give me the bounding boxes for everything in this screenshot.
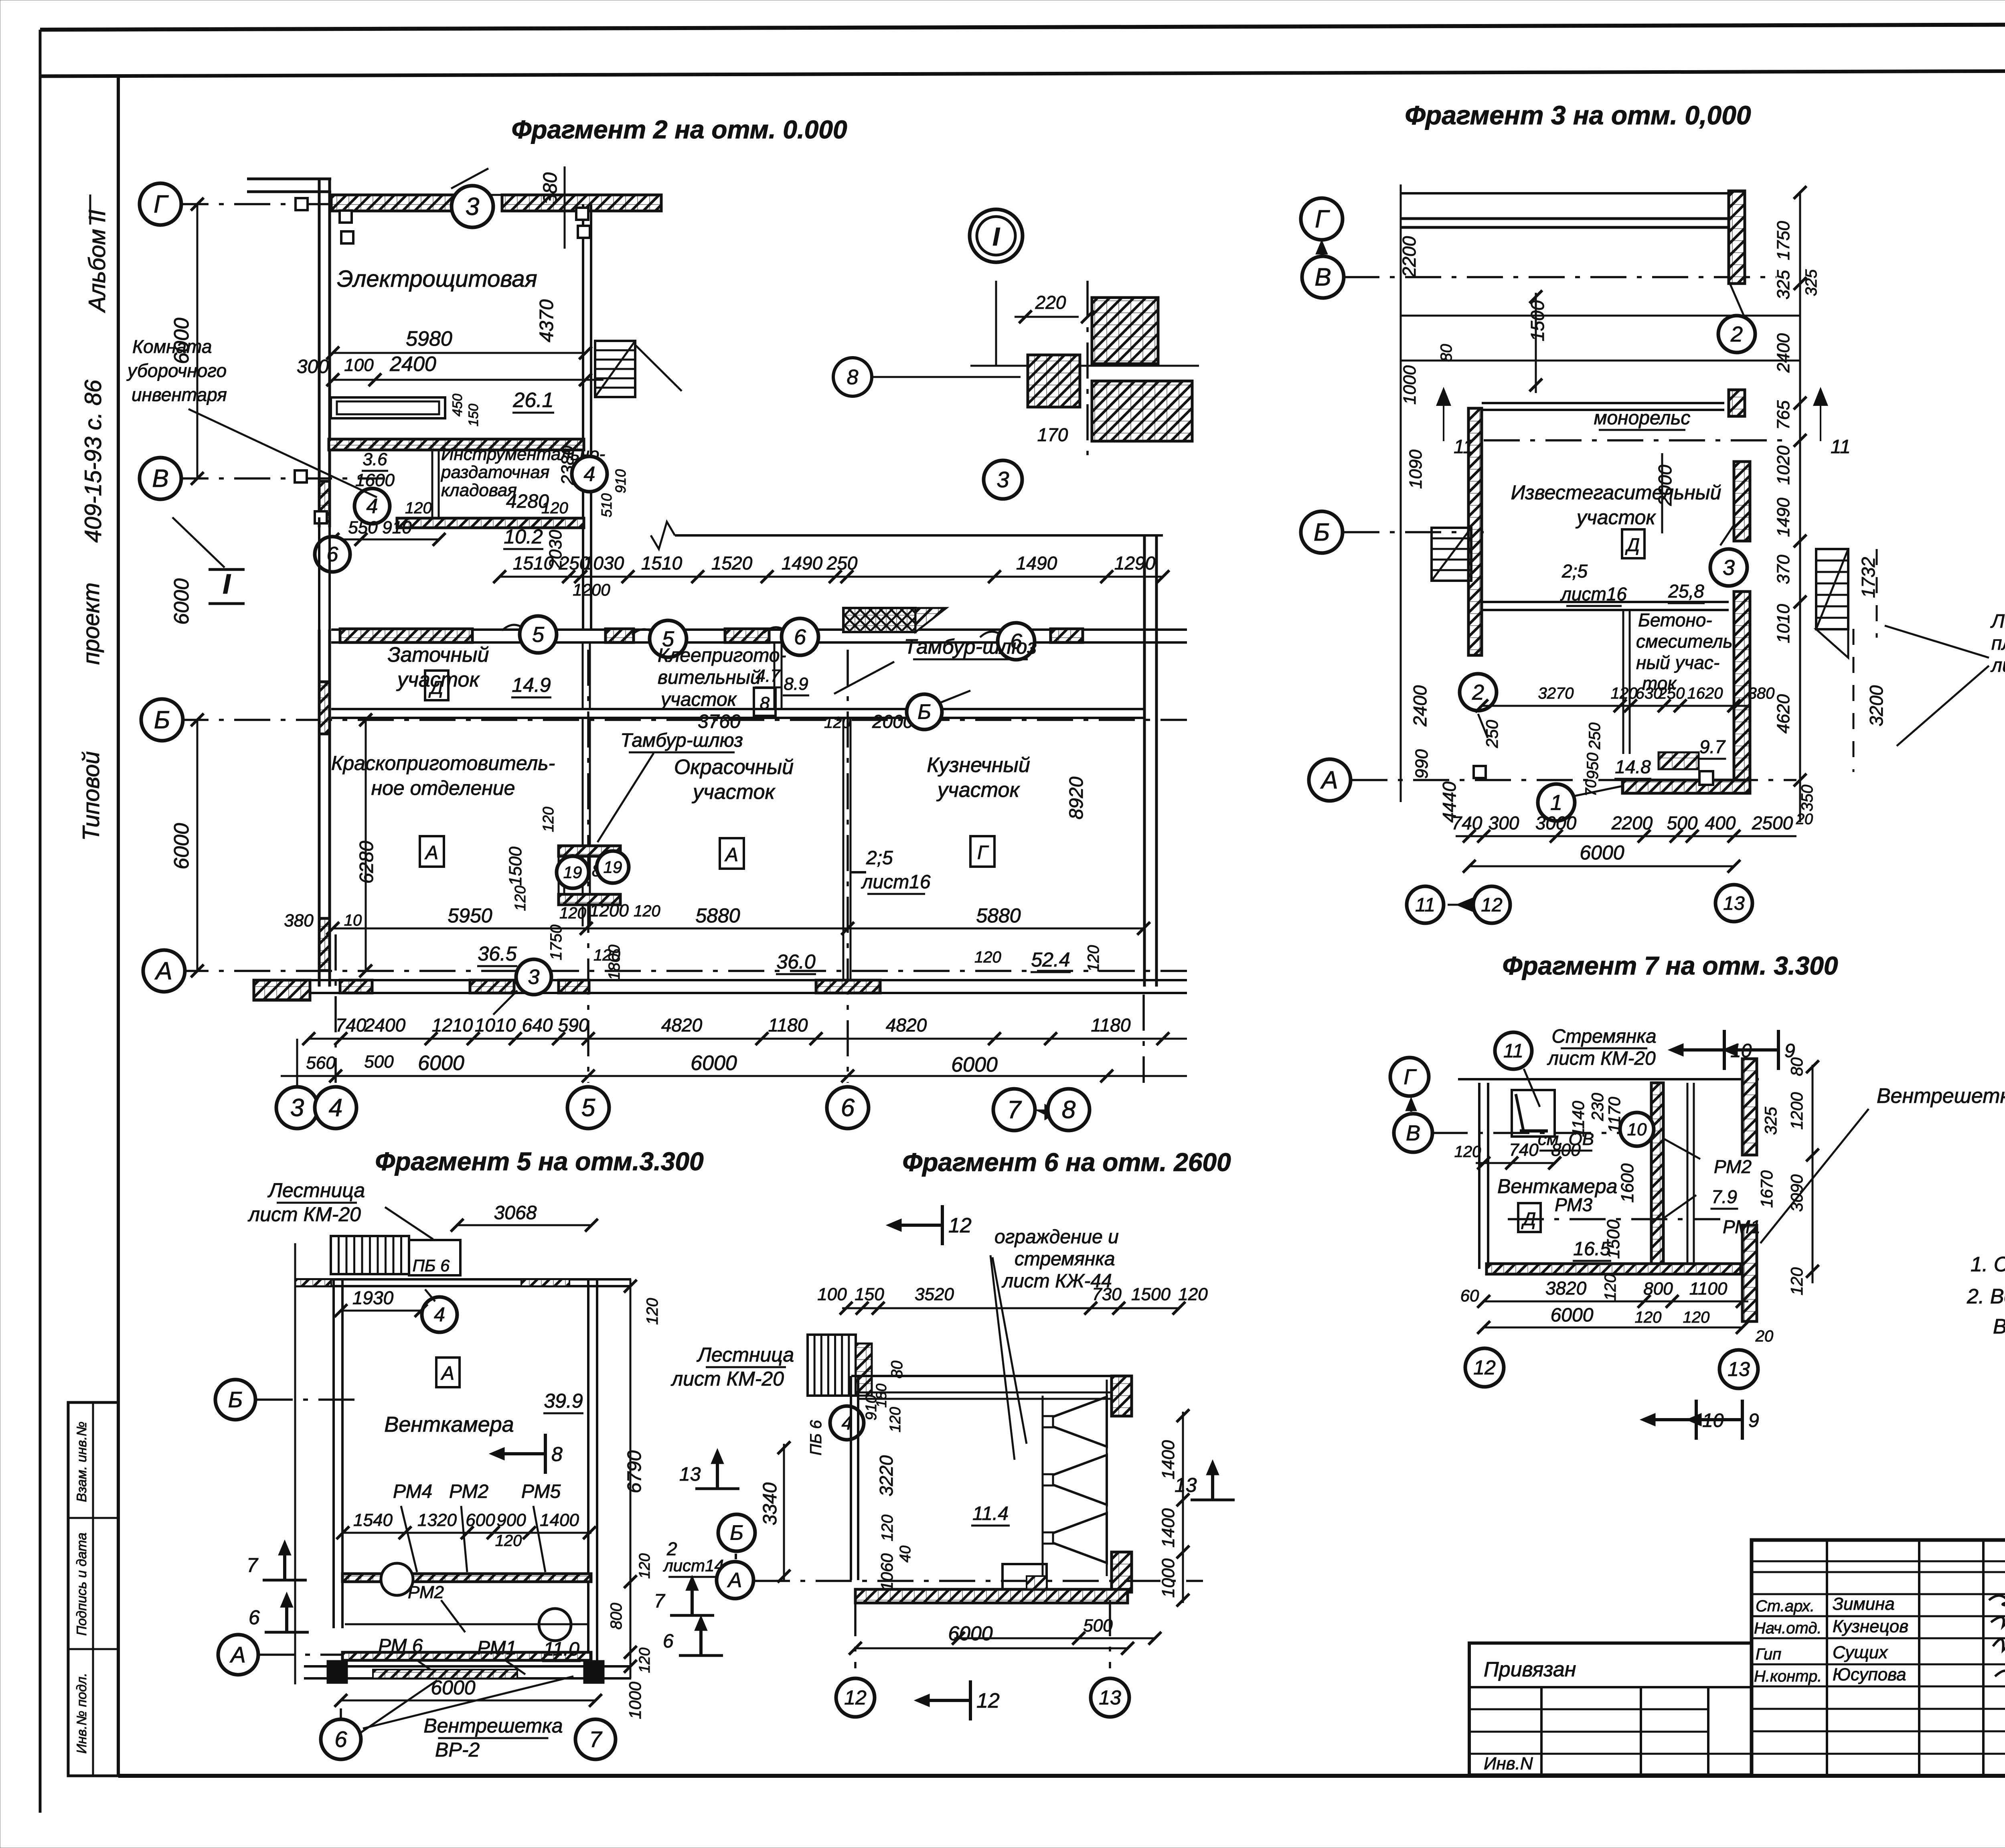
svg-text:11: 11 [1503,1040,1523,1062]
svg-text:39.9: 39.9 [544,1390,583,1412]
svg-text:7.9: 7.9 [1711,1186,1737,1207]
F2 axis circles bottom [276,1087,318,1129]
svg-text:12: 12 [844,1686,867,1709]
svg-text:1170: 1170 [1605,1096,1624,1133]
svg-text:2400: 2400 [364,1015,406,1035]
svg-text:2200: 2200 [1399,236,1420,278]
svg-text:1180: 1180 [1091,1015,1131,1035]
svg-text:5980: 5980 [406,327,452,351]
svg-text:1000: 1000 [1158,1558,1178,1598]
svg-text:380: 380 [1748,685,1775,702]
svg-text:Зимина: Зимина [1833,1594,1895,1614]
svg-text:4: 4 [329,1094,342,1122]
svg-text:3: 3 [996,467,1009,492]
svg-text:7: 7 [247,1554,259,1576]
F5 top wall [295,1278,631,1281]
svg-text:400: 400 [1705,813,1736,833]
svg-text:12: 12 [1473,1356,1496,1379]
svg-text:Фрагмент 2 на отм. 0.000: Фрагмент 2 на отм. 0.000 [511,115,847,144]
F7 bottom dims [1484,1301,1748,1303]
svg-text:2: 2 [1472,680,1484,704]
svg-text:6790: 6790 [624,1450,645,1493]
F5 axis circles [215,1380,255,1420]
svg-text:1: 1 [1550,790,1562,815]
svg-text:1500: 1500 [1527,300,1548,341]
F6 top dims [842,1307,1179,1309]
svg-text:120: 120 [512,885,529,911]
svg-text:250: 250 [826,553,858,573]
svg-text:300: 300 [297,356,329,377]
F2 circles on window wall [502,625,550,636]
inner frame [117,76,120,1776]
F2 strip partitions [582,642,584,709]
svg-text:Комната: Комната [132,336,212,357]
svg-text:11: 11 [1831,436,1851,458]
inner top border line [40,70,2005,76]
svg-text:Б: Б [154,706,170,734]
svg-text:100: 100 [344,355,374,375]
svg-text:8: 8 [847,366,859,389]
F6 top arrow 12 [941,1205,944,1245]
svg-text:уборочного: уборочного [126,360,227,381]
F3 circle1 [1538,784,1575,821]
svg-text:325: 325 [1774,270,1793,300]
svg-text:2;5: 2;5 [866,847,893,869]
svg-text:3068: 3068 [494,1202,537,1224]
svg-text:1200: 1200 [1787,1092,1806,1130]
svg-text:910: 910 [382,518,412,537]
F2 left 6000 dims [196,204,198,478]
svg-text:640: 640 [522,1015,553,1035]
svg-text:2400: 2400 [1410,685,1430,727]
svg-text:3000: 3000 [1535,813,1577,833]
svg-text:6000: 6000 [948,1622,992,1645]
svg-text:250: 250 [1586,723,1604,750]
F5 dims [343,1532,591,1534]
svg-text:10: 10 [1627,1120,1647,1139]
svg-text:3200: 3200 [1866,685,1887,726]
svg-text:5880: 5880 [976,904,1021,927]
svg-text:участок: участок [660,689,737,710]
svg-text:3820: 3820 [1545,1278,1587,1299]
svg-text:I: I [992,222,1000,251]
F6 main outline [851,1375,1120,1377]
svg-text:60: 60 [1460,1286,1479,1305]
F2 bottom dims row1 [309,1038,1187,1040]
svg-text:900: 900 [496,1510,526,1530]
F5 dim 1930 [341,1310,421,1312]
svg-text:3520: 3520 [915,1285,954,1304]
svg-text:6000: 6000 [431,1676,475,1699]
svg-text:Бетоно-: Бетоно- [1638,610,1712,630]
svg-text:1030: 1030 [583,553,624,573]
svg-text:Кузнечный: Кузнечный [927,754,1030,777]
svg-text:11.0: 11.0 [543,1639,579,1660]
F3 axis lines [1343,276,1776,278]
svg-text:13: 13 [1723,893,1745,914]
svg-text:409-15-93 с. 86: 409-15-93 с. 86 [80,379,106,543]
svg-text:1180: 1180 [768,1015,808,1035]
svg-text:3: 3 [290,1094,304,1122]
svg-text:1490: 1490 [1016,553,1057,573]
svg-text:1. Сечения 1-1 ÷ 10 на лист: 1. Сечения 1-1 ÷ 10 на листе14; 11÷ 13 н… [1971,1253,2005,1276]
svg-text:740: 740 [336,1015,367,1035]
svg-text:5950: 5950 [448,904,492,927]
svg-text:230: 230 [1588,1092,1607,1121]
svg-text:1290: 1290 [1114,553,1156,573]
svg-text:325: 325 [1802,269,1820,296]
svg-text:800: 800 [608,1603,625,1630]
F3 top walls [1400,184,1402,802]
F2 window wall lower block [331,628,1187,631]
svg-text:РМ2: РМ2 [449,1481,488,1502]
svg-text:участок: участок [936,778,1020,802]
svg-text:РМ 6: РМ 6 [378,1635,423,1657]
svg-text:765: 765 [1774,400,1793,430]
svg-text:Г: Г [154,190,169,218]
F2 electro panel [331,397,445,418]
F2 5950/5880 dim row [333,928,1144,930]
svg-text:Фрагмент 3 на отм. 0,000: Фрагмент 3 на отм. 0,000 [1405,100,1751,130]
svg-text:Окрасочный: Окрасочный [674,756,794,779]
svg-text:120: 120 [559,904,586,922]
svg-text:120: 120 [879,1515,896,1542]
svg-text:120: 120 [1085,945,1102,972]
svg-text:ПБ 6: ПБ 6 [807,1420,825,1455]
svg-text:1510: 1510 [641,553,683,573]
svg-text:120: 120 [644,1298,661,1325]
svg-text:А: А [440,1363,454,1384]
F3 concrete room [1482,601,1729,603]
svg-text:450: 450 [450,394,465,417]
F2 dims 300 100 2400 [333,379,604,381]
svg-text:1020: 1020 [1774,446,1793,485]
F2 dim 5980 [333,352,585,354]
svg-text:1400: 1400 [540,1510,579,1530]
svg-text:раздаточная: раздаточная [440,462,549,482]
svg-text:РМ2: РМ2 [408,1583,444,1602]
svg-text:4370: 4370 [536,299,557,342]
svg-text:380: 380 [284,911,314,930]
svg-text:Вентрешетка: Вентрешетка [423,1714,563,1737]
svg-text:А: А [424,842,438,863]
svg-text:10.2: 10.2 [504,525,543,548]
svg-text:5: 5 [581,1094,595,1122]
svg-text:4820: 4820 [661,1015,703,1035]
svg-text:120: 120 [974,948,1001,966]
F2 wall continuations [318,517,320,630]
svg-text:950: 950 [1584,753,1602,780]
svg-text:510: 510 [598,493,615,517]
svg-text:1490: 1490 [782,553,823,573]
svg-text:12: 12 [1481,894,1502,916]
F3 bottom dims [1456,835,1796,837]
svg-text:590: 590 [558,1015,589,1035]
svg-text:740: 740 [1452,813,1482,833]
svg-text:4: 4 [367,495,378,518]
svg-text:Д: Д [428,677,443,698]
svg-text:3: 3 [1723,555,1735,580]
svg-text:Инв.N: Инв.N [1484,1754,1533,1773]
svg-text:А: А [229,1642,245,1667]
svg-text:Привязан: Привязан [1484,1658,1576,1681]
svg-text:560: 560 [306,1053,336,1073]
svg-text:6000: 6000 [691,1052,737,1075]
svg-text:1600: 1600 [1618,1163,1637,1203]
svg-text:Нач.отд.: Нач.отд. [1754,1619,1822,1637]
main title block [1752,1540,2005,1776]
svg-text:6: 6 [841,1094,855,1122]
svg-text:2;5: 2;5 [1561,561,1588,582]
svg-text:Венткамера: Венткамера [384,1412,514,1437]
svg-text:250: 250 [1658,685,1685,702]
svg-text:19: 19 [604,857,622,876]
svg-text:РМ1: РМ1 [1723,1216,1760,1237]
svg-text:ВР-2: ВР-2 [435,1739,480,1761]
F3 up arrows [1437,389,1450,441]
svg-text:120: 120 [540,807,557,832]
F5 dim 3068 [457,1224,591,1226]
svg-text:25,8: 25,8 [1668,581,1704,602]
F2 axis lines [172,203,461,205]
F2 circle 6 [315,537,350,572]
svg-text:Известегасительный: Известегасительный [1511,481,1721,504]
svg-text:80: 80 [1438,344,1455,362]
svg-text:3: 3 [528,966,540,989]
svg-text:Б: Б [730,1522,743,1545]
signatures [1989,1596,2005,1687]
svg-text:Сущих: Сущих [1833,1643,1888,1662]
svg-text:1732: 1732 [1858,557,1879,598]
svg-text:1510: 1510 [513,553,554,573]
svg-text:1750: 1750 [547,925,565,960]
F6 bottom dims [954,1637,1155,1639]
svg-text:1500: 1500 [1131,1285,1171,1304]
svg-text:120: 120 [634,902,660,920]
svg-text:4: 4 [584,463,595,486]
svg-text:11: 11 [1454,436,1474,458]
F2 axis circles left [140,183,181,225]
svg-text:120: 120 [1611,685,1638,702]
svg-text:лист КМ-15: лист КМ-15 [1990,655,2005,676]
svg-text:12: 12 [976,1689,1000,1712]
svg-text:стремянка: стремянка [1015,1248,1115,1270]
F3 right stair [1816,549,1848,629]
F2 long top line of lower block [675,534,1163,537]
svg-text:8920: 8920 [1066,776,1087,819]
svg-text:лист КМ-20: лист КМ-20 [1547,1048,1656,1069]
svg-text:1140: 1140 [1569,1100,1588,1137]
F6 right dims [1182,1412,1184,1603]
svg-text:9: 9 [1748,1410,1759,1431]
svg-text:1100: 1100 [1689,1279,1728,1299]
svg-text:10: 10 [344,912,362,929]
svg-text:3760: 3760 [698,711,741,732]
svg-text:11: 11 [1415,894,1435,916]
F3 right dim column [1799,192,1801,822]
svg-text:1320: 1320 [417,1510,457,1530]
F2 stair block on wall [843,608,915,632]
svg-text:Г: Г [1403,1065,1417,1089]
F7 bottom wall [1487,1264,1741,1274]
svg-text:11.4: 11.4 [972,1503,1009,1524]
F5 walls [332,1279,335,1628]
svg-text:вительный: вительный [658,667,761,688]
svg-text:36.0: 36.0 [776,950,816,973]
F5 right dims [630,1279,632,1678]
svg-text:13: 13 [1099,1686,1121,1709]
svg-text:800: 800 [1551,1140,1581,1160]
F6 bunkers [1042,1396,1044,1576]
F2 circles 4 [572,456,607,492]
F2 upper block: electro room walls [318,179,321,527]
svg-text:Альбом II: Альбом II [84,210,110,313]
svg-text:730: 730 [1092,1285,1122,1304]
svg-text:6000: 6000 [1580,841,1624,864]
svg-text:7: 7 [589,1726,602,1752]
svg-text:6: 6 [327,543,338,566]
svg-text:1010: 1010 [1774,604,1793,643]
svg-text:Взам. инв.№: Взам. инв.№ [74,1422,89,1502]
F6 bottom circles [854,1600,857,1668]
F7 stремянка label [1495,1032,1532,1069]
F3 circle 3 [1710,549,1747,586]
F7 bottom arrows [1695,1400,1698,1440]
svg-text:13: 13 [1175,1474,1197,1496]
svg-text:Б: Б [917,701,931,724]
svg-text:6000: 6000 [170,578,193,625]
svg-text:А: А [727,1569,742,1592]
svg-text:1750: 1750 [1774,221,1793,260]
svg-text:8: 8 [760,693,770,713]
F7 axis circles [1390,1058,1429,1096]
svg-text:500: 500 [364,1052,394,1072]
F3 axis circles [1301,198,1343,240]
svg-text:6000: 6000 [170,823,193,869]
svg-text:Стремянка: Стремянка [1551,1026,1656,1047]
svg-text:40: 40 [897,1546,914,1562]
F3 circle 2 top [1718,316,1755,353]
F5 top stair [331,1236,409,1274]
svg-text:120: 120 [1683,1309,1710,1326]
svg-text:120: 120 [1787,1267,1806,1295]
svg-text:монорельс: монорельс [1594,407,1691,429]
svg-text:120: 120 [887,1407,904,1432]
svg-text:лист14: лист14 [662,1556,724,1575]
svg-text:4820: 4820 [886,1015,927,1035]
svg-text:лист КМ-20: лист КМ-20 [670,1368,784,1390]
svg-text:120: 120 [636,1647,653,1673]
svg-text:Фрагмент 5 на отм.3.300: Фрагмент 5 на отм.3.300 [375,1147,703,1176]
svg-text:550: 550 [348,518,378,537]
F7 right dims [1812,1065,1814,1283]
F2 left wall lower block [318,630,321,987]
svg-text:2400: 2400 [1774,333,1793,373]
svg-text:Электрощитовая: Электрощитовая [337,266,537,292]
svg-text:1670: 1670 [1757,1170,1776,1208]
svg-text:1930: 1930 [352,1287,394,1308]
svg-text:9.7: 9.7 [1699,736,1726,757]
F6 stair top left [808,1335,856,1396]
svg-text:Типовой: Типовой [78,751,104,841]
F2 bottom wall [254,979,1187,981]
F2 stair upper [595,341,635,397]
svg-text:РМ2: РМ2 [1714,1156,1752,1177]
svg-text:участок: участок [1576,506,1657,529]
svg-text:180: 180 [873,1384,889,1408]
svg-text:Лестница: Лестница [267,1179,365,1202]
svg-text:ограждение и: ограждение и [994,1226,1119,1248]
svg-text:1210: 1210 [432,1015,473,1035]
svg-text:120: 120 [1454,1143,1481,1161]
svg-text:13: 13 [679,1464,701,1485]
svg-text:6000: 6000 [1551,1305,1594,1326]
svg-text:1500: 1500 [506,847,525,886]
F2 column flags upper [296,198,308,210]
svg-text:3.6: 3.6 [363,450,387,469]
svg-text:150: 150 [466,404,481,427]
svg-text:120: 120 [1178,1285,1208,1304]
F5 6000 dim [341,1700,595,1702]
svg-text:6: 6 [663,1631,674,1652]
svg-text:170: 170 [1037,424,1068,445]
svg-text:800: 800 [1643,1279,1673,1299]
svg-text:участок: участок [692,780,776,804]
svg-text:Гип: Гип [1756,1645,1781,1663]
svg-text:Д: Д [1625,534,1640,555]
svg-text:проект: проект [78,582,104,665]
svg-text:1000: 1000 [626,1682,644,1719]
F2 mid dim row [500,576,1163,578]
svg-text:1060: 1060 [877,1553,896,1591]
svg-text:Инв.№ подл.: Инв.№ подл. [74,1673,89,1754]
svg-text:20: 20 [1755,1327,1774,1345]
svg-text:Лестница: Лестница [697,1343,794,1366]
svg-text:14.9: 14.9 [512,674,551,696]
F3 monorail [1482,402,1724,404]
svg-text:инвентаря: инвентаря [132,384,227,405]
svg-text:2500: 2500 [1752,813,1793,833]
svg-text:2. Вентрешетки прилагаются л: 2. Вентрешетки прилагаются лист — АРИ.ВР… [1967,1285,2005,1308]
svg-text:150: 150 [855,1285,884,1304]
svg-text:250: 250 [1482,719,1501,748]
svg-text:2: 2 [1730,322,1743,346]
svg-text:1800: 1800 [606,945,623,981]
svg-text:300: 300 [1489,813,1519,833]
F5 bottom wall [304,1665,631,1668]
svg-text:19: 19 [563,863,582,881]
svg-text:6: 6 [334,1726,347,1752]
F7 inner walls [1651,1083,1663,1269]
svg-text:120: 120 [405,499,432,517]
svg-text:смеситель-: смеситель- [1636,631,1739,652]
svg-text:370: 370 [1774,555,1793,584]
F2 interior partitions lower [582,718,584,926]
svg-text:740: 740 [1509,1140,1539,1160]
svg-text:РМ4: РМ4 [393,1481,432,1502]
F2 bottom dims row2 [281,1075,1187,1077]
F5 machine rows [342,1574,591,1582]
svg-text:52.4: 52.4 [1031,948,1070,971]
svg-text:Заточный: Заточный [388,643,489,667]
svg-text:В: В [1314,263,1331,291]
svg-text:120: 120 [1635,1309,1662,1326]
svg-text:8: 8 [551,1443,563,1465]
F7 top arrows [1723,1030,1726,1070]
svg-text:120: 120 [636,1553,653,1578]
svg-text:1400: 1400 [1158,1508,1178,1548]
svg-text:7: 7 [1007,1096,1022,1124]
